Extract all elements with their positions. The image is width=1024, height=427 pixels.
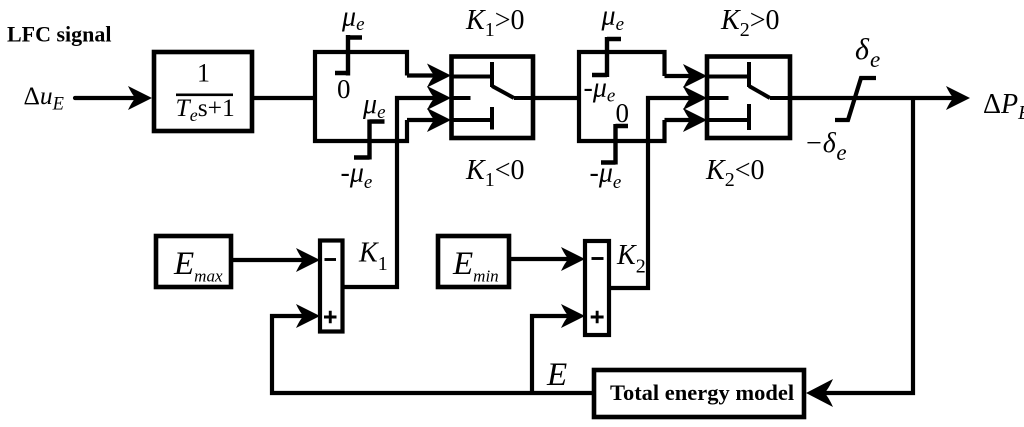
switch1 interior: upper contact bar: [490, 62, 494, 87]
wire: summer2 output up to switch2 middle input: [611, 98, 696, 288]
svg-text:Tes+1: Tes+1: [176, 93, 235, 125]
summer1 minus sign: [325, 258, 337, 261]
wire: switch1 to relay box 2: [533, 96, 579, 100]
arrowhead: lower into switch1: [427, 108, 451, 132]
wire: switch2 to output arrow: [790, 96, 958, 100]
switch1 interior: lower contact bar: [490, 107, 494, 130]
step icon A (relay1 upper): [335, 35, 362, 76]
switch1 interior: blade diagonal: [492, 86, 514, 98]
arrowhead: lower into switch2: [683, 108, 707, 132]
wire: relay2 lower tap to switch2: [665, 118, 697, 122]
switch1 interior: output stub: [514, 96, 533, 100]
switch2 interior: upper contact line: [707, 75, 749, 79]
wire: relay1 upper tap to switch1: [407, 73, 440, 77]
wire: Emin to summer2: [509, 257, 572, 261]
saturation symbol on output line: [835, 78, 876, 120]
summer2 minus sign: [592, 257, 604, 260]
relay box 2 outline (open middle-right): [579, 52, 665, 141]
Emax block rect: [156, 236, 231, 287]
switch1 interior: middle stub: [451, 96, 471, 100]
svg-text:LFC signal: LFC signal: [7, 22, 112, 47]
svg-text:Total energy model: Total energy model: [610, 380, 794, 405]
svg-text:1: 1: [197, 59, 210, 88]
arrowhead: middle into switch2: [683, 86, 707, 110]
switch2 interior: blade diagonal: [749, 86, 770, 98]
switch1 interior: lower contact line: [451, 118, 492, 122]
wire: E output line from model to summer1 plus input: [272, 316, 594, 393]
svg-text:0: 0: [337, 74, 351, 104]
svg-text:0: 0: [616, 98, 630, 128]
svg-text:K1<0: K1<0: [465, 155, 524, 191]
summer2 plus sign: [591, 311, 604, 323]
step icon C (relay2 upper): [592, 37, 621, 77]
wire: E branch to summer2 plus input: [532, 316, 572, 393]
wire: Emax to summer1: [231, 258, 308, 262]
switch2 interior: middle stub: [707, 96, 729, 100]
step icon B (relay1 lower): [354, 120, 385, 160]
summer1 plus sign: [324, 311, 337, 323]
switch2 interior: output stub: [770, 96, 790, 100]
switch box K2 rect: [707, 57, 790, 139]
wire: summer1 output up to switch1 middle input: [344, 98, 440, 287]
step icon D (relay2 lower): [601, 124, 628, 165]
arrowhead: E into summer1 plus: [296, 304, 320, 328]
arrowhead: upper into switch2: [683, 64, 707, 88]
arrowhead: Emin into summer2: [561, 247, 585, 271]
transfer block G1 rect: [154, 52, 252, 131]
wire: feedback from output line down to total energy model: [822, 98, 913, 393]
switch2 interior: lower contact bar: [747, 104, 751, 130]
svg-text:ΔPE: ΔPE: [983, 89, 1024, 124]
wire: relay1 lower tap to switch1: [407, 118, 440, 122]
Emin block rect: [438, 236, 509, 287]
switch box K1 rect: [452, 57, 534, 139]
switch2 interior: upper contact bar: [747, 62, 751, 87]
svg-text:E: E: [546, 357, 567, 393]
summer2 rect: [585, 241, 609, 335]
switch2 interior: lower contact line: [707, 118, 749, 122]
block1 fraction bar: [176, 94, 233, 97]
wire: input to block1: [75, 96, 140, 100]
total energy model rect: [594, 370, 804, 417]
svg-text:K2<0: K2<0: [705, 155, 764, 191]
arrowhead: upper into switch1: [427, 64, 451, 88]
svg-text:K1>0: K1>0: [465, 5, 524, 41]
arrowhead: input into block1: [128, 86, 152, 110]
relay box 1 outline (open middle-right): [315, 52, 407, 141]
arrowhead: output dPE: [946, 86, 970, 110]
arrowhead: E into summer2 plus: [561, 304, 585, 328]
arrowhead: Emax into summer1: [296, 248, 320, 272]
arrowhead: middle into switch1: [427, 86, 451, 110]
wire: block1 to relay box 1: [252, 96, 315, 100]
switch1 interior: upper contact line: [451, 75, 492, 79]
summer1 rect: [320, 241, 343, 332]
wire: relay2 upper tap to switch2: [665, 74, 697, 78]
svg-text:K2>0: K2>0: [720, 5, 779, 41]
arrowhead: feedback into total energy model: [806, 379, 833, 407]
